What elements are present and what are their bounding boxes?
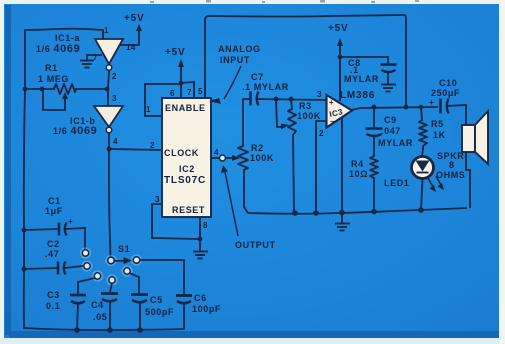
svg-text:10Ω: 10Ω (349, 169, 368, 179)
IC2 top pins 6,7 and +5V (178, 59, 194, 98)
svg-text:R2: R2 (251, 143, 264, 153)
svg-text:100K: 100K (297, 111, 321, 121)
inverter IC1-b (94, 106, 123, 133)
svg-text:OHMS: OHMS (436, 170, 465, 180)
svg-text:+: + (329, 98, 334, 107)
capacitor C5 (129, 273, 148, 330)
capacitor C3 (70, 278, 95, 330)
capacitor C9 (366, 107, 383, 156)
svg-text:IC2: IC2 (179, 164, 195, 174)
capacitor C6 (140, 260, 192, 329)
svg-text:R5: R5 (431, 119, 444, 129)
wire IC1-a pin14 to +5V arrow (120, 24, 142, 45)
svg-text:IC1-a: IC1-a (55, 33, 80, 43)
svg-text:+5V: +5V (124, 13, 144, 24)
IC2 pin3 reset loop (152, 204, 200, 239)
svg-text:2: 2 (319, 129, 324, 138)
IC3 output line (351, 107, 438, 110)
svg-text:1/6 4069: 1/6 4069 (36, 43, 80, 55)
svg-text:C7: C7 (251, 72, 264, 82)
S1 contact halos (80, 247, 142, 285)
svg-text:INPUT: INPUT (220, 55, 250, 65)
IC3 pin2 ground jog (316, 121, 327, 213)
IC2 pin4 output circle and wiper arrow to R2 (211, 155, 240, 161)
svg-text:1μF: 1μF (45, 206, 63, 216)
wire clock node to IC2 pin2 (109, 149, 162, 150)
ground C8 (381, 85, 396, 92)
svg-text:14: 14 (126, 43, 136, 52)
svg-text:ENABLE: ENABLE (165, 103, 206, 113)
switch S1 pole (108, 257, 115, 264)
inverter IC1-a (95, 39, 123, 70)
resistor R4 (370, 156, 378, 211)
svg-text:0.1: 0.1 (46, 301, 60, 311)
svg-text:+: + (68, 217, 73, 226)
svg-text:8: 8 (203, 221, 208, 230)
svg-text:C2: C2 (47, 239, 60, 249)
svg-text:7: 7 (93, 53, 98, 62)
svg-text:R3: R3 (299, 101, 312, 111)
S1 contact F (C6) (133, 257, 140, 264)
svg-text:+: + (429, 98, 434, 107)
wire clock node down to S1 pole (109, 149, 111, 257)
wire IC1-a output to IC1-b input (108, 71, 109, 106)
resistor R3 trimmer (276, 99, 296, 213)
svg-text:C4: C4 (91, 300, 104, 310)
svg-text:TLS07C: TLS07C (164, 175, 206, 186)
svg-text:C3: C3 (47, 290, 60, 300)
svg-text:4: 4 (214, 148, 219, 157)
svg-text:7: 7 (187, 88, 192, 97)
svg-text:1 MEG: 1 MEG (38, 74, 69, 84)
switch S1 wiper arrow (115, 257, 132, 264)
svg-text:C10: C10 (439, 78, 457, 88)
svg-text:LM386: LM386 (340, 90, 375, 101)
svg-text:2: 2 (112, 72, 117, 81)
svg-text:+5V: +5V (328, 23, 348, 34)
svg-text:.05: .05 (93, 312, 107, 322)
svg-text:.1 MYLAR: .1 MYLAR (242, 82, 289, 92)
svg-text:250μF: 250μF (431, 88, 460, 98)
svg-text:.47: .47 (45, 249, 59, 259)
svg-text:2: 2 (150, 141, 155, 150)
LED1 (412, 157, 445, 211)
ground bus right section (248, 208, 467, 214)
IC2 pin5 analog input wire (205, 15, 406, 107)
svg-text:1/6 4069: 1/6 4069 (53, 125, 97, 137)
svg-text:100K: 100K (250, 153, 274, 163)
capacitor C10 (441, 99, 467, 126)
IC3 ground stub (341, 117, 343, 212)
svg-text:1: 1 (104, 26, 109, 35)
capacitor C8 (340, 57, 397, 84)
svg-text:MYLAR: MYLAR (378, 138, 413, 148)
wire bottom bus left (24, 328, 184, 330)
OUTPUT pointer (221, 165, 238, 236)
resistor R1 (25, 84, 107, 110)
S1 contact D (C4) (109, 277, 115, 283)
svg-text:RESET: RESET (172, 205, 205, 215)
svg-text:C6: C6 (194, 293, 207, 303)
ground bus symbol (335, 213, 350, 231)
LED light arrows (428, 176, 444, 192)
IC3 V+ stem and +5V arrow (337, 38, 343, 101)
S1 contact C (C3) (94, 273, 100, 279)
potentiometer R2 (238, 99, 248, 213)
S1 contact B (C2) (84, 263, 90, 269)
svg-text:C9: C9 (384, 115, 397, 125)
svg-text:5: 5 (198, 87, 203, 96)
op-amp IC3 LM386 (327, 95, 353, 128)
svg-text:3: 3 (112, 94, 117, 103)
svg-text:S1: S1 (118, 244, 130, 254)
svg-text:.047: .047 (381, 126, 401, 136)
wire top-left feedback loop pin1 IC1-a (25, 29, 103, 89)
IC2 TL507C box (162, 98, 211, 217)
ANALOG INPUT pointer (209, 66, 241, 104)
svg-text:4: 4 (113, 137, 118, 146)
S1 contact E (C5) (124, 268, 130, 274)
svg-text:+5V: +5V (165, 47, 185, 58)
svg-text:CLOCK: CLOCK (164, 148, 199, 158)
R1 wiper arrow and loop (64, 98, 66, 110)
svg-text:500pF: 500pF (145, 307, 174, 317)
IC2 enable pin1 loop to +5V node (145, 84, 181, 116)
S1 contact A (C1) (82, 250, 88, 256)
svg-text:C5: C5 (150, 295, 163, 305)
wire IC1-b output to node (108, 133, 110, 149)
capacitor C1 (24, 223, 85, 251)
svg-text:OUTPUT: OUTPUT (235, 240, 276, 250)
ground IC1-a pin7 (80, 55, 102, 68)
resistor R5 (419, 107, 427, 156)
ground IC2 pin8 (193, 239, 208, 259)
svg-text:LED1: LED1 (384, 178, 409, 188)
IC2 pin8 stub (199, 217, 201, 239)
speaker SPKR (462, 111, 488, 208)
svg-text:MYLAR: MYLAR (344, 74, 379, 84)
wire left rail (24, 89, 25, 328)
svg-text:−: − (330, 117, 335, 126)
svg-text:C1: C1 (48, 196, 61, 206)
svg-text:3: 3 (155, 195, 160, 204)
capacitor C4 (101, 283, 118, 330)
svg-text:ANALOG: ANALOG (218, 44, 261, 54)
svg-text:1K: 1K (433, 130, 446, 140)
capacitor C7 (248, 92, 327, 106)
capacitor C2 (24, 262, 83, 275)
svg-text:R4: R4 (351, 159, 364, 169)
svg-text:1: 1 (146, 105, 151, 114)
svg-text:R1: R1 (45, 63, 58, 73)
svg-text:100pF: 100pF (192, 304, 221, 314)
svg-text:6: 6 (170, 89, 175, 98)
svg-text:3: 3 (317, 90, 322, 99)
svg-text:8: 8 (449, 160, 455, 170)
